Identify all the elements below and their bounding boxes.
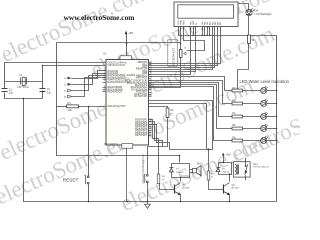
svg-text:D6: D6 <box>255 9 259 13</box>
svg-text:RESET: RESET <box>63 177 79 182</box>
svg-text:TEXTELL-KBE-12V: TEXTELL-KBE-12V <box>253 167 270 169</box>
wire terminal C to RA2 <box>72 76 107 91</box>
svg-text:7: 7 <box>201 24 202 26</box>
resistor R9 <box>157 174 160 184</box>
wire D6 column <box>149 31 218 66</box>
resistor R5 <box>232 127 243 130</box>
wire terminal B to RA1 <box>72 74 107 85</box>
svg-text:RC7/RX/DT: RC7/RX/DT <box>134 95 148 98</box>
svg-text:LED Water Level Indication: LED Water Level Indication <box>240 79 290 84</box>
wire button to gnd <box>147 183 149 202</box>
transistor Q1 <box>175 183 181 195</box>
chip left pin numbers <box>103 61 106 107</box>
backlight wire from LCD to D6 <box>238 4 249 91</box>
buzzer driver: D7 snubber loop <box>160 164 193 202</box>
diode D8 <box>216 168 221 172</box>
svg-text:3: 3 <box>183 24 184 26</box>
svg-text:RD7/PSP7: RD7/PSP7 <box>135 134 148 137</box>
chip pin stubs left <box>103 63 107 107</box>
svg-text:10k: 10k <box>68 108 73 112</box>
junction node +5V <box>126 43 128 45</box>
wire RC6 feed to D8 loop <box>149 104 207 150</box>
svg-text:BUZ1: BUZ1 <box>197 163 204 165</box>
buzzer BUZ1 <box>193 166 202 176</box>
svg-text:BC548: BC548 <box>182 187 189 189</box>
wire pot bottom <box>149 58 181 88</box>
relay RL1 <box>233 158 250 181</box>
wire RW to gnd rail <box>193 31 195 36</box>
svg-text:2: 2 <box>180 24 181 26</box>
LCD pin stubs <box>179 27 221 31</box>
LED D1 <box>261 86 268 94</box>
wire D4 column <box>149 31 213 70</box>
wire crystal middle <box>5 81 43 83</box>
LCD LCD1 <box>174 2 238 27</box>
crystal X1 <box>21 77 27 85</box>
svg-text:14: 14 <box>219 24 221 26</box>
LCD bus wiring <box>149 31 221 75</box>
resistor R10 <box>207 171 210 180</box>
wire RC0 to row2 <box>149 81 233 104</box>
svg-text:OSC2/CLKOUT: OSC2/CLKOUT <box>108 64 126 67</box>
svg-text:1N4007: 1N4007 <box>222 172 230 174</box>
push button RESET <box>85 176 90 184</box>
wire R10 bottom to base <box>209 180 224 190</box>
wire RC1 to row3 <box>149 83 233 117</box>
D8 snubber loop <box>209 163 232 202</box>
svg-text:22p: 22p <box>47 90 52 94</box>
svg-text:1: 1 <box>177 24 178 26</box>
LED D6 backlight <box>246 9 255 16</box>
resistor R8 <box>166 108 169 118</box>
LED D2 <box>261 99 268 107</box>
wire VEE loop to pot wiper <box>184 31 205 51</box>
wire RC3 to row5 <box>149 87 233 141</box>
svg-text:U1: U1 <box>103 51 107 55</box>
svg-text:4: 4 <box>190 24 191 26</box>
resistor R7 <box>248 35 251 44</box>
svg-text:9: 9 <box>207 24 208 26</box>
resistor R6 <box>232 139 243 142</box>
svg-text:X1: X1 <box>19 73 23 77</box>
diode D7 <box>169 168 173 172</box>
wire D5 column <box>149 31 215 68</box>
wire RS column <box>149 31 191 75</box>
wire terminal A to RA0 <box>72 71 107 79</box>
wire MCLR <box>57 106 67 108</box>
svg-text:LCD Backlight: LCD Backlight <box>255 12 272 16</box>
wire ground of caps <box>5 91 43 99</box>
wire terminal D to RA3 <box>72 78 107 97</box>
LED D5 <box>261 136 268 144</box>
svg-text:Manual LCD Backlight On: Manual LCD Backlight On <box>141 154 145 184</box>
capacitor C1 <box>2 89 8 92</box>
contrast pot RV1 <box>168 40 178 66</box>
wire OSC1 net <box>5 63 103 89</box>
LED D3 <box>261 112 268 120</box>
wire RC5 feed staircase <box>149 101 213 150</box>
svg-text:www.electroSome.com: www.electroSome.com <box>64 13 136 22</box>
capacitor C2 <box>40 89 46 92</box>
wire Q1 emitter to gnd <box>180 195 182 202</box>
wire Q2 collector <box>229 175 231 182</box>
chip right pin numbers <box>150 61 153 136</box>
wire E column <box>149 31 196 72</box>
wire RD staircases <box>149 120 159 175</box>
wire right gnd bus <box>179 31 277 202</box>
resistor R3 <box>232 102 243 105</box>
resistor R2 <box>232 89 243 92</box>
ground symbol <box>147 202 149 205</box>
wire RC2 to row4 <box>149 85 233 129</box>
wire R9 bottom to base <box>160 184 175 190</box>
wire gnd down-left <box>24 99 277 202</box>
PWR block pins 11,32 <box>120 56 132 60</box>
wire Q1 collector <box>180 178 182 182</box>
wire RB7 to row1 <box>149 77 233 91</box>
svg-text:8: 8 <box>204 24 205 26</box>
junction dots on gnd rail <box>193 35 194 36</box>
svg-text:RE2/AN7/CS: RE2/AN7/CS <box>108 91 123 94</box>
power +5V (top) <box>125 31 134 37</box>
svg-text:PIC16F877A: PIC16F877A <box>104 143 119 146</box>
chip pin stubs right <box>149 63 152 136</box>
svg-text:BC548: BC548 <box>232 187 239 189</box>
wire VDD drop to pot <box>180 31 182 50</box>
svg-text:+5V: +5V <box>128 31 133 35</box>
svg-text:6: 6 <box>195 24 196 26</box>
chip left pin text <box>108 61 136 108</box>
wire +5V left vertical <box>57 43 180 163</box>
wire R8 top feed <box>149 107 168 109</box>
push button backlight <box>144 174 149 183</box>
wire OSC2 net <box>43 66 103 89</box>
wire D7 column <box>149 31 221 64</box>
svg-text:22p: 22p <box>9 91 14 95</box>
wire D0-D3 to gnd rail <box>202 31 204 36</box>
microcontroller U1 PIC16F877A <box>106 60 149 146</box>
wire R8 bottom to backlight button <box>148 118 168 175</box>
svg-text:MCLR/Vpp/THV: MCLR/Vpp/THV <box>108 105 126 108</box>
wire row1 R to LED to bus <box>243 90 261 92</box>
svg-text:1N4007: 1N4007 <box>176 172 184 174</box>
svg-text:R1: R1 <box>68 101 72 105</box>
wire +5V arrow drop <box>126 36 128 56</box>
wire chip gnd <box>126 149 128 202</box>
wire reset vertical <box>88 107 90 177</box>
wire +5V horizontal <box>57 42 181 44</box>
svg-text:RL1: RL1 <box>253 163 258 166</box>
svg-text:5: 5 <box>193 24 194 26</box>
LED D4 <box>261 124 268 132</box>
resistor R1 <box>67 105 79 108</box>
left input terminals with staircase wires <box>72 71 107 97</box>
chip right pin text <box>125 61 148 137</box>
relay driver: +5V arrow <box>222 152 231 162</box>
resistor R4 <box>232 115 243 118</box>
svg-text:CONTRAST: CONTRAST <box>172 48 176 65</box>
terminal arrows <box>68 77 72 86</box>
transistor Q2 <box>224 183 230 195</box>
svg-text:CRYSTAL: CRYSTAL <box>18 85 30 89</box>
svg-text:+5V: +5V <box>226 152 231 156</box>
mid feeds to driver stage <box>148 101 213 202</box>
GND block at chip bottom <box>122 144 133 149</box>
wire RC4 feed to R10 <box>208 150 210 172</box>
LCD pin labels <box>178 19 222 24</box>
wire Q2 emitter to gnd <box>229 195 231 202</box>
